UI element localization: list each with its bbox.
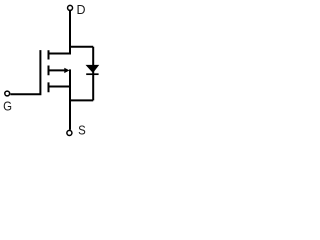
svg-text:D: D	[77, 2, 86, 17]
svg-text:G: G	[3, 99, 12, 114]
svg-text:S: S	[78, 123, 86, 138]
